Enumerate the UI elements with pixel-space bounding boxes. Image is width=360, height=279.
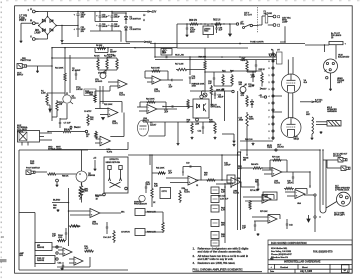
svg-text:25V: 25V — [81, 17, 85, 19]
svg-text:R73 4.7K: R73 4.7K — [250, 189, 259, 192]
svg-text:U6A: U6A — [58, 262, 62, 265]
svg-text:.022: .022 — [248, 86, 253, 88]
svg-text:0: 0 — [269, 131, 270, 133]
svg-text:BLEND: BLEND — [53, 200, 61, 202]
svg-text:+: + — [108, 25, 110, 27]
svg-text:C12: C12 — [198, 131, 203, 133]
svg-text:Effective: Mon-Fri: Effective: Mon-Fri — [271, 256, 288, 259]
svg-text:6L6: 6L6 — [304, 82, 308, 84]
svg-text:and duty of the chassis assemb: and duty of the chassis assembly. — [198, 249, 242, 253]
svg-text:2.: 2. — [193, 254, 196, 258]
svg-text:680: 680 — [53, 208, 57, 210]
svg-text:+: + — [345, 44, 347, 46]
svg-text:8: 8 — [269, 61, 270, 63]
svg-text:(2): (2) — [331, 37, 334, 39]
svg-text:(-): (-) — [30, 36, 32, 38]
svg-text:C34 .1UF: C34 .1UF — [103, 236, 112, 239]
svg-text:R14 100K: R14 100K — [55, 67, 64, 70]
svg-text:5: 5 — [269, 103, 270, 105]
svg-text:INTERSTELLAR OVERDRIVE: INTERSTELLAR OVERDRIVE — [284, 260, 321, 264]
svg-text:2N5088: 2N5088 — [88, 175, 96, 177]
svg-text:R49 100: R49 100 — [245, 138, 253, 141]
svg-text:.15UF: .15UF — [287, 183, 293, 185]
svg-text:220K: 220K — [249, 119, 254, 121]
svg-text:3: 3 — [269, 89, 270, 91]
svg-text:1/4 JACK: 1/4 JACK — [333, 155, 342, 158]
svg-text:.047UF: .047UF — [224, 164, 231, 167]
svg-text:1K: 1K — [153, 202, 156, 204]
svg-text:1UF: 1UF — [242, 228, 246, 230]
svg-text:.022UF: .022UF — [218, 96, 225, 98]
svg-text:AC OUT: AC OUT — [244, 14, 253, 17]
svg-text:R24 100K: R24 100K — [151, 67, 160, 70]
svg-text:Checked: Checked — [280, 267, 289, 269]
svg-text:R75 10K: R75 10K — [260, 211, 268, 213]
svg-text:U8A: U8A — [297, 202, 301, 205]
svg-text:1UF: 1UF — [169, 87, 174, 89]
svg-text:47-100UF: 47-100UF — [72, 69, 81, 72]
svg-text:SPKR LEFT: SPKR LEFT — [334, 215, 345, 217]
svg-text:+: + — [96, 16, 98, 18]
svg-text:TL072: TL072 — [119, 95, 126, 97]
svg-text:10K: 10K — [90, 119, 94, 121]
svg-text:RANGE: RANGE — [37, 259, 45, 262]
svg-text:+: + — [101, 141, 103, 144]
svg-text:OPTO-ISOL: OPTO-ISOL — [211, 107, 222, 109]
svg-text:RANGE: RANGE — [37, 246, 45, 249]
svg-text:TL072: TL072 — [154, 91, 161, 93]
svg-text:100UF: 100UF — [114, 26, 121, 28]
svg-text:R69 470: R69 470 — [251, 163, 259, 166]
svg-text:EFFECTS: EFFECTS — [110, 159, 120, 161]
svg-text:(+): (+) — [30, 9, 33, 11]
svg-text:BOTTOM: BOTTOM — [22, 60, 31, 62]
svg-text:+: + — [74, 28, 76, 31]
svg-text:7: 7 — [269, 117, 270, 119]
svg-text:R6 33K: R6 33K — [96, 45, 103, 47]
svg-text:C1A: C1A — [72, 97, 77, 100]
svg-text:+: + — [271, 267, 273, 269]
svg-text:1 AMP: 1 AMP — [34, 32, 41, 35]
svg-text:LDR: LDR — [195, 124, 200, 126]
svg-text:SEC: SEC — [306, 114, 311, 116]
svg-text:10K: 10K — [239, 84, 243, 86]
svg-text:LOOP: LOOP — [107, 56, 113, 58]
svg-text:C42: C42 — [289, 224, 293, 227]
svg-text:RED: RED — [30, 163, 35, 165]
svg-text:R24 100K: R24 100K — [146, 98, 155, 101]
svg-text:TXFR: TXFR — [267, 147, 273, 149]
svg-text:R88 1K: R88 1K — [62, 176, 69, 178]
svg-text:.0039: .0039 — [239, 119, 243, 121]
svg-text:R3 1K: R3 1K — [94, 56, 100, 58]
svg-text:1UF: 1UF — [219, 30, 223, 32]
svg-text:R64: R64 — [255, 181, 259, 184]
svg-text:R41 100K: R41 100K — [156, 167, 165, 170]
svg-text:9134 Hinkler Mill,: 9134 Hinkler Mill, — [271, 247, 288, 250]
svg-text:R32 4.7K: R32 4.7K — [64, 128, 72, 131]
svg-text:Date: Date — [270, 270, 275, 273]
svg-text:R93 33K: R93 33K — [95, 195, 103, 197]
svg-text:INPUT: INPUT — [17, 75, 24, 77]
svg-text:+: + — [189, 181, 191, 184]
svg-text:6: 6 — [269, 110, 270, 112]
svg-text:1M AUD: 1M AUD — [95, 80, 103, 83]
svg-text:(0): (0) — [30, 20, 33, 22]
svg-text:.1UF: .1UF — [164, 112, 169, 114]
svg-text:July 4, 1988: July 4, 1988 — [300, 270, 313, 273]
svg-text:R22 100K: R22 100K — [104, 104, 113, 106]
svg-text:3300PF: 3300PF — [110, 52, 117, 54]
svg-text:TL072: TL072 — [233, 193, 240, 195]
svg-text:C7 1UF: C7 1UF — [64, 123, 72, 125]
svg-text:7815: 7815 — [204, 31, 209, 33]
svg-text:25V: 25V — [81, 31, 85, 33]
svg-text:Title: Title — [270, 257, 273, 260]
svg-text:TL072: TL072 — [112, 123, 118, 125]
svg-text:PROCESSOR: PROCESSOR — [134, 204, 147, 206]
svg-text:CR SWITCH: CR SWITCH — [130, 19, 142, 21]
svg-text:+: + — [148, 109, 150, 112]
svg-text:1: 1 — [269, 138, 270, 140]
svg-text:4: 4 — [269, 95, 270, 98]
svg-text:Sheet: Sheet — [302, 266, 308, 269]
svg-text:1UF2W: 1UF2W — [76, 89, 83, 91]
svg-text:1UF: 1UF — [208, 83, 212, 85]
svg-text:Phone: (818)353-4747: Phone: (818)353-4747 — [271, 253, 292, 256]
svg-text:.1UF: .1UF — [168, 173, 173, 175]
svg-text:C19: C19 — [186, 163, 190, 165]
svg-text:1.5K 1UF: 1.5K 1UF — [220, 198, 229, 200]
svg-text:2/B: 2/B — [243, 160, 247, 162]
svg-text:SIG: SIG — [20, 255, 24, 257]
svg-text:1K: 1K — [96, 199, 99, 201]
svg-text:3.: 3. — [193, 261, 196, 265]
svg-text:250V: 250V — [190, 32, 195, 34]
svg-text:2.2M: 2.2M — [41, 93, 46, 95]
svg-text:R17 1.0M: R17 1.0M — [175, 64, 184, 66]
svg-text:+15: +15 — [93, 158, 97, 160]
svg-text:(-): (-) — [143, 20, 145, 22]
svg-text:1UF: 1UF — [192, 78, 196, 80]
svg-text:10K: 10K — [221, 225, 225, 227]
svg-text:(+): (+) — [143, 15, 146, 17]
svg-text:HARNESS: HARNESS — [327, 110, 337, 113]
svg-text:+: + — [273, 172, 275, 175]
svg-text:1.: 1. — [193, 246, 196, 250]
svg-text:0: 0 — [269, 68, 270, 70]
svg-text:63K: 63K — [238, 168, 242, 170]
svg-text:6BQ5: 6BQ5 — [294, 139, 300, 141]
svg-text:+: + — [296, 194, 298, 197]
svg-text:LEFT: LEFT — [337, 82, 343, 84]
svg-text:JACKS: JACKS — [277, 146, 284, 149]
svg-text:R70 C28: R70 C28 — [272, 157, 280, 159]
svg-text:.1UF: .1UF — [146, 184, 151, 186]
svg-text:2.2K: 2.2K — [154, 186, 159, 188]
svg-text:12AX7: 12AX7 — [150, 124, 157, 127]
svg-text:MIC: MIC — [121, 212, 125, 214]
svg-text:DHC SOUND CORPORATION: DHC SOUND CORPORATION — [271, 241, 307, 245]
svg-text:R26 10K: R26 10K — [199, 57, 207, 59]
svg-text:SEND RETURN: SEND RETURN — [106, 162, 121, 164]
svg-text:NC4 L.NO: NC4 L.NO — [175, 54, 184, 57]
svg-text:+: + — [96, 25, 98, 27]
svg-text:PWR T: PWR T — [19, 20, 27, 22]
svg-text:TONE CONTR: TONE CONTR — [250, 42, 264, 44]
svg-text:8: 8 — [269, 124, 270, 126]
svg-text:.1UF: .1UF — [162, 53, 167, 55]
svg-text:LAMP: LAMP — [282, 21, 288, 24]
svg-text:PILOT: PILOT — [315, 102, 322, 104]
svg-text:FAX: (818)353-5779: FAX: (818)353-5779 — [313, 251, 333, 254]
svg-text:CHORUS: CHORUS — [121, 232, 130, 234]
svg-text:R58 470: R58 470 — [189, 19, 198, 22]
svg-text:100K: 100K — [192, 86, 197, 88]
svg-text:TL072: TL072 — [274, 183, 281, 185]
svg-text:1UF: 1UF — [52, 236, 56, 238]
svg-text:+: + — [74, 14, 76, 17]
svg-text:C9 47PF: C9 47PF — [84, 110, 92, 113]
svg-text:BR1: BR1 — [35, 30, 40, 32]
svg-text:1: 1 — [269, 75, 270, 77]
svg-text:BALANCED: BALANCED — [338, 56, 350, 59]
svg-text:1 PHONE JACK: 1 PHONE JACK — [335, 189, 350, 192]
svg-text:1K: 1K — [86, 136, 89, 138]
svg-text:P0: P0 — [271, 50, 273, 52]
svg-text:OT: OT — [277, 50, 281, 52]
svg-text:VDC: VDC — [240, 24, 245, 26]
svg-text:R21B 100K: R21B 100K — [195, 84, 205, 86]
svg-text:680: 680 — [90, 94, 94, 96]
svg-text:CR SWITCH: CR SWITCH — [130, 29, 142, 31]
svg-text:and LM7 volts to say B volt.: and LM7 volts to say B volt. — [198, 257, 234, 261]
svg-text:FOOT SWITCH: FOOT SWITCH — [26, 168, 40, 170]
svg-text:TL072: TL072 — [92, 224, 99, 226]
svg-text:OPTO: OPTO — [162, 191, 168, 193]
svg-text:+: + — [91, 213, 93, 216]
svg-text:FULL CHROMA AMPLIFIER SCHEMATI: FULL CHROMA AMPLIFIER SCHEMATIC — [193, 268, 243, 272]
svg-text:Resistors are 1/4W, 5% rated.: Resistors are 1/4W, 5% rated. — [198, 261, 236, 265]
svg-text:+: + — [109, 113, 111, 116]
svg-text:LOG: LOG — [58, 237, 63, 239]
svg-text:2: 2 — [269, 82, 270, 84]
svg-text:R62 5.6: R62 5.6 — [213, 20, 221, 22]
svg-text:+: + — [108, 16, 110, 18]
svg-text:TL072: TL072 — [184, 192, 190, 194]
svg-text:100UF: 100UF — [114, 17, 121, 19]
svg-text:TL072: TL072 — [107, 151, 113, 153]
svg-text:J2: J2 — [196, 185, 199, 187]
svg-text:Sun Valley, CA 91352: Sun Valley, CA 91352 — [271, 250, 292, 253]
